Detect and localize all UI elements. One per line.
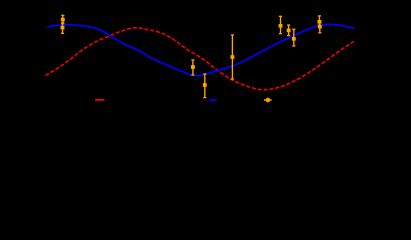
data point 8 errorbar [292, 29, 296, 46]
data point 2 errorbar [61, 23, 65, 33]
blue fitted model curve [47, 24, 354, 75]
data point 5 errorbar [230, 35, 234, 79]
legend blue dash handle [209, 99, 217, 101]
data point 1 errorbar [61, 15, 65, 23]
data point 7 errorbar [287, 25, 291, 36]
data point 10 errorbar [318, 22, 322, 33]
data point 6 errorbar [279, 16, 283, 33]
data point 3 errorbar [191, 60, 195, 75]
legend orange errorbar handle [264, 98, 272, 103]
data point 4 errorbar [203, 74, 207, 98]
legend red dash handle [95, 99, 105, 101]
red dashed true-function curve [46, 28, 355, 90]
data point 9 errorbar [317, 16, 321, 25]
